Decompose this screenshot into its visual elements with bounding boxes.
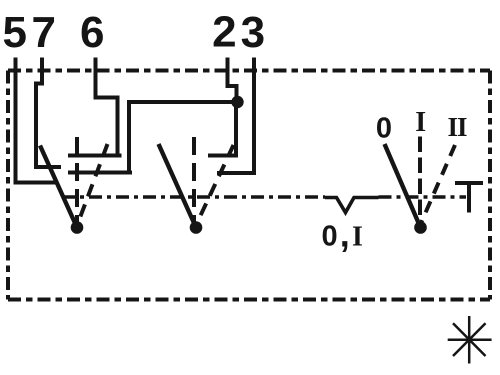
svg-text:5: 5	[2, 8, 26, 57]
fixed contact bar B1 (switch S1 upper)	[68, 154, 122, 158]
switch S1 wiper arm (position 0, solid)	[40, 146, 77, 228]
mechanical linkage dash-dot line (left part)	[62, 195, 325, 199]
svg-text:7: 7	[32, 8, 56, 57]
svg-text:II: II	[447, 112, 467, 142]
svg-text:I: I	[352, 222, 363, 253]
switch S2 pivot dot	[190, 221, 203, 234]
switch S2 wiper dashed centre line	[192, 137, 196, 222]
wire terminal 7 to fixed contact bar	[36, 58, 61, 168]
switch S3 wiper arm from 0 (solid)	[385, 144, 421, 228]
wire node A to fixed contact bar (switch S2 upper)	[208, 104, 236, 156]
wire terminal 3 to fixed contact bar (switch S2 lower)	[217, 58, 254, 174]
svg-text:3: 3	[241, 8, 265, 57]
svg-text:2: 2	[212, 8, 236, 57]
switch S3 wiper dashed diagonal to II	[421, 145, 455, 223]
svg-text:6: 6	[80, 8, 104, 57]
switch S2 wiper arm (solid)	[159, 144, 197, 228]
svg-text:I: I	[415, 107, 426, 138]
switch S1 wiper position II (dashed diagonal)	[78, 144, 108, 223]
switch S1 pivot dot	[71, 221, 84, 234]
footnote asterisk	[448, 316, 492, 364]
switch S1 wiper position I (dashed centre line)	[75, 137, 79, 222]
mechanical linkage dash-dot line (right part)	[379, 195, 467, 199]
switch S2 wiper dashed diagonal	[197, 145, 234, 223]
fixed contact bar B2 (switch S1 lower)	[68, 171, 132, 175]
wire terminal 6 to fixed contact bar B1	[96, 58, 118, 155]
wire terminal 2 down to node A	[228, 58, 237, 99]
stop symbol T	[455, 183, 483, 213]
switch S3 wiper dashed centre line to I	[418, 137, 422, 223]
wire terminal 5 to wiper S1 common	[16, 58, 57, 183]
detent notch in linkage line	[325, 198, 379, 213]
svg-text:0: 0	[322, 221, 338, 253]
enclosure dash-dot border	[8, 71, 490, 300]
node A junction dot	[231, 96, 243, 108]
wire bar B2 riser to node A horizontal	[129, 102, 238, 173]
switch S3 pivot dot	[414, 221, 427, 234]
svg-text:,: ,	[340, 214, 350, 255]
svg-text:0: 0	[376, 113, 392, 145]
